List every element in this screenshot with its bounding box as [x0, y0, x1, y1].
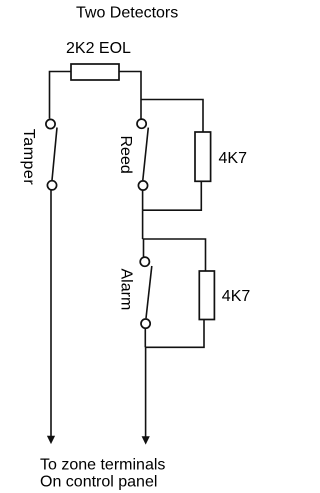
- svg-text:Two Detectors: Two Detectors: [76, 5, 178, 22]
- switch S1 Tamper bottom contact: [47, 181, 56, 190]
- svg-text:Alarm: Alarm: [117, 269, 134, 311]
- svg-text:Tamper: Tamper: [20, 129, 37, 186]
- wire alarm to arrow: [145, 347, 147, 437]
- switch S3 Alarm top contact: [140, 257, 149, 266]
- svg-text:4K7: 4K7: [222, 288, 250, 305]
- wire junction horizontal to R2 top: [141, 100, 203, 133]
- svg-text:2K2 EOL: 2K2 EOL: [66, 40, 131, 57]
- wire tamper bottom to arrow: [50, 190, 52, 437]
- wire R2 bottom to loop: [143, 181, 202, 210]
- svg-text:To zone terminals: To zone terminals: [40, 457, 165, 474]
- switch S1 Tamper top contact: [46, 119, 55, 128]
- switch S2 Reed bottom contact: [138, 181, 147, 190]
- wire alarm bottom down: [144, 329, 146, 348]
- arrow head left: [48, 436, 55, 443]
- wire reed bottom down to loop1: [142, 191, 144, 211]
- resistor R2 4K7 body: [195, 132, 211, 181]
- wire resistor right to junction: [119, 72, 141, 100]
- svg-text:On control panel: On control panel: [40, 473, 157, 490]
- wire reed branch down: [140, 100, 142, 119]
- switch S1 Tamper blade: [52, 128, 57, 181]
- wire loop2 top horizontal to R3: [143, 239, 206, 271]
- arrow head right: [142, 437, 149, 444]
- resistor R1 2K2 EOL body: [71, 64, 119, 80]
- switch S3 Alarm blade: [146, 266, 152, 318]
- wire down to alarm switch: [143, 239, 145, 257]
- switch S2 Reed blade: [143, 128, 149, 181]
- resistor R3 4K7 body: [199, 271, 214, 320]
- switch S2 Reed top contact: [137, 119, 146, 128]
- switch S3 Alarm bottom contact: [141, 319, 150, 328]
- svg-text:4K7: 4K7: [219, 150, 248, 167]
- svg-text:Reed: Reed: [117, 136, 134, 174]
- wire middle between loops: [142, 210, 144, 239]
- wire top-left horizontal: [50, 72, 72, 119]
- wire R3 bottom to loop2 bottom: [145, 320, 204, 348]
